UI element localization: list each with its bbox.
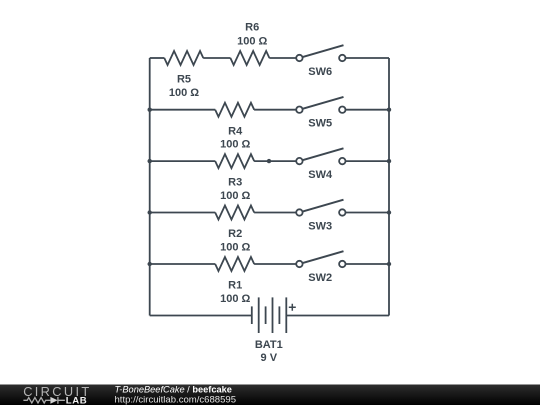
svg-text:R1: R1 [228,280,242,292]
svg-text:100 Ω: 100 Ω [220,190,250,202]
wire: R3 row left segment [150,160,216,162]
wire: bottom right segment [286,315,389,317]
junction: right rail at SW4 row [387,159,391,163]
svg-text:SW4: SW4 [308,169,333,181]
junction: left rail at R4 row [148,108,152,112]
resistor R6 [230,22,269,65]
wire: R1 row left segment [150,263,216,265]
svg-text:R5: R5 [177,74,191,86]
svg-text:R4: R4 [228,125,243,137]
svg-text:SW3: SW3 [308,220,332,232]
svg-text:BAT1: BAT1 [255,339,283,351]
switch SW2 [296,251,389,284]
svg-text:http://circuitlab.com/c688595: http://circuitlab.com/c688595 [115,394,237,405]
svg-text:100 Ω: 100 Ω [220,293,250,305]
svg-text:100 Ω: 100 Ω [169,87,199,99]
logo mini-circuit glyph [23,397,65,404]
wire: row1 between R5 and R6 [203,57,230,59]
svg-text:T-BoneBeefCake / beefcake: T-BoneBeefCake / beefcake [115,385,232,395]
svg-text:R6: R6 [245,22,259,34]
svg-text:100 Ω: 100 Ω [237,35,267,47]
svg-text:9 V: 9 V [261,352,278,364]
resistor R1 [215,257,254,305]
svg-text:SW2: SW2 [308,272,332,284]
switch SW3 [296,200,389,233]
svg-text:R3: R3 [228,177,242,189]
junction: right rail at SW5 row [387,108,391,112]
junction: left rail at R1 row [148,262,152,266]
wire: R1 row resistor to SW2 [254,263,296,265]
svg-text:100 Ω: 100 Ω [220,241,250,253]
junction: right rail at SW2 row [387,262,391,266]
wire: R2 row left segment [150,212,216,214]
wire: R4 row left segment [150,109,216,111]
battery BAT1 [252,297,296,364]
wire: row1 R6 to SW6 [269,57,296,59]
wire: R4 row resistor to SW5 [254,109,296,111]
wire: R3 row resistor to SW4 [254,160,296,162]
junction: left rail at R3 row [148,159,152,163]
svg-text:LAB: LAB [66,395,88,405]
resistor R2 [215,206,254,254]
wire: R2 row resistor to SW3 [254,212,296,214]
resistor R5 [164,51,203,99]
svg-text:R2: R2 [228,228,242,240]
wire: row1 left segment [150,57,165,59]
switch SW5 [296,97,389,130]
wire: left rail [149,58,151,316]
wire: right rail [388,58,390,316]
resistor R4 [215,103,254,151]
wire: bottom left segment [150,315,252,317]
switch SW4 [296,148,389,181]
svg-text:SW5: SW5 [308,118,332,130]
junction: left rail at R2 row [148,210,152,214]
switch SW6 [296,45,389,78]
junction: node on R3 row between resistor and SW4 [267,159,271,163]
svg-text:100 Ω: 100 Ω [220,139,250,151]
junction: right rail at SW3 row [387,210,391,214]
resistor R3 [215,154,254,202]
svg-text:SW6: SW6 [308,66,332,78]
